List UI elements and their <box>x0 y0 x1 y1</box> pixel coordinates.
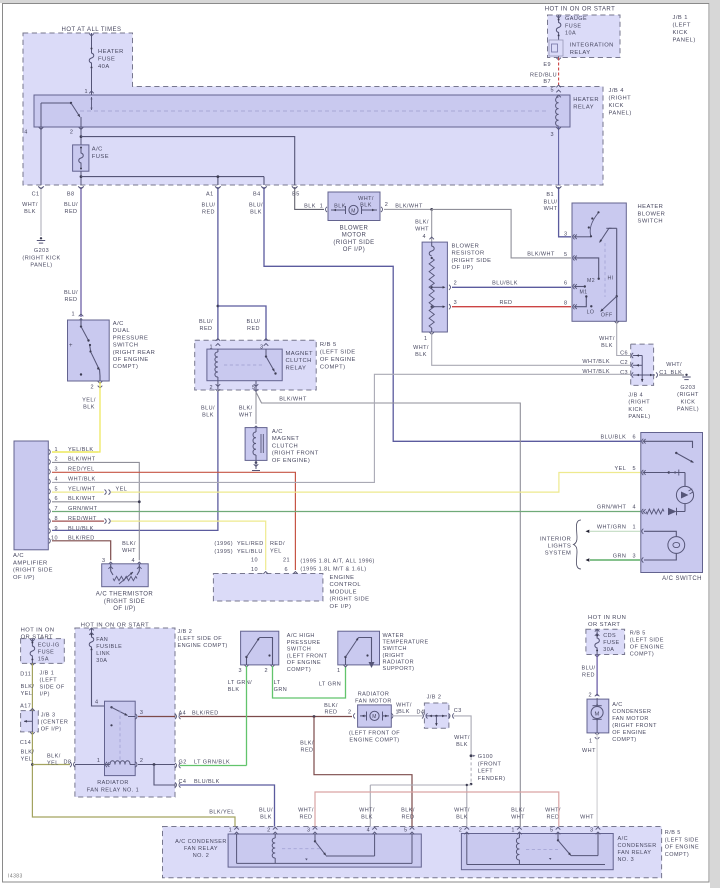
svg-text:OF I/P): OF I/P) <box>13 575 35 581</box>
svg-text:B5: B5 <box>292 192 300 198</box>
svg-text:(1996): (1996) <box>214 541 233 547</box>
pin6 internal <box>575 286 584 288</box>
svg-text:BLK/WHT: BLK/WHT <box>68 457 96 463</box>
svg-text:R/B 5: R/B 5 <box>320 342 337 348</box>
svg-text:WHT/: WHT/ <box>396 703 412 709</box>
svg-text:FAN MOTOR: FAN MOTOR <box>612 716 649 722</box>
svg-text:HOT IN ON: HOT IN ON <box>21 628 55 634</box>
pin8 internal <box>575 298 586 307</box>
svg-text:(FRONT: (FRONT <box>478 761 502 767</box>
svg-text:OF ENGINE: OF ENGINE <box>612 730 646 736</box>
svg-text:2: 2 <box>385 202 389 208</box>
svg-text:RED: RED <box>301 747 314 753</box>
svg-text:FUSE: FUSE <box>38 650 54 656</box>
svg-text:LINK: LINK <box>96 651 110 657</box>
svg-text:OF ENGINE: OF ENGINE <box>113 357 149 363</box>
svg-text:BLK/YEL: BLK/YEL <box>209 810 234 816</box>
svg-text:(RIGHT FRONT: (RIGHT FRONT <box>612 723 657 729</box>
svg-text:WHT/: WHT/ <box>454 735 470 741</box>
gauge fuse 10A <box>558 15 560 19</box>
CDS fuse box <box>586 629 625 654</box>
tap 3 wire RED <box>449 304 451 309</box>
svg-text:C3: C3 <box>620 370 628 376</box>
svg-text:RED: RED <box>582 672 595 678</box>
svg-text:A/C: A/C <box>13 553 24 559</box>
svg-text:3: 3 <box>238 668 242 674</box>
svg-text:2: 2 <box>54 457 58 463</box>
svg-text:MAGNET: MAGNET <box>272 436 300 442</box>
svg-text:OF I/P): OF I/P) <box>452 265 474 271</box>
fan fusible link <box>89 628 94 630</box>
relay1 box <box>105 701 136 775</box>
svg-text:4: 4 <box>422 234 426 240</box>
svg-text:RED: RED <box>300 814 313 820</box>
svg-text:A/C: A/C <box>92 147 103 153</box>
svg-text:WHT/: WHT/ <box>22 202 38 208</box>
svg-text:INTERIOR: INTERIOR <box>540 537 571 543</box>
svg-text:1: 1 <box>589 739 593 745</box>
amplifier wires <box>52 451 98 453</box>
pin9 wire drawn with relay above <box>52 541 111 561</box>
svg-text:A/C: A/C <box>612 702 623 708</box>
svg-text:4: 4 <box>131 558 135 564</box>
svg-text:HEATER: HEATER <box>573 97 599 103</box>
svg-text:GRN/WHT: GRN/WHT <box>597 505 627 511</box>
LT GRN/BLK wire down to G2 <box>246 666 248 766</box>
svg-text:A17: A17 <box>20 703 31 709</box>
wire to blower resistor <box>431 209 433 242</box>
switch internals pin5 + LED <box>644 472 669 474</box>
svg-text:HEATER: HEATER <box>98 49 124 55</box>
wire to heater blower switch pin5 <box>432 209 571 258</box>
bottom arm <box>616 295 618 297</box>
svg-text:E9: E9 <box>543 62 551 68</box>
svg-text:BLK: BLK <box>334 204 346 210</box>
svg-text:(LEFT: (LEFT <box>40 678 58 684</box>
svg-text:BLOWER: BLOWER <box>340 226 369 232</box>
svg-text:BLK/: BLK/ <box>122 541 136 547</box>
A/C condenser fan relay no.3 <box>461 834 613 870</box>
svg-text:SYSTEM: SYSTEM <box>545 551 572 557</box>
svg-text:G203: G203 <box>34 248 49 254</box>
heater relay coil <box>556 97 559 126</box>
svg-text:FUSE: FUSE <box>565 23 581 29</box>
svg-text:SWITCH: SWITCH <box>638 219 664 225</box>
svg-text:OF I/P): OF I/P) <box>343 247 365 253</box>
svg-text:5: 5 <box>54 486 58 492</box>
switch internals pin6 <box>644 441 693 448</box>
svg-text:5: 5 <box>632 466 636 472</box>
svg-text:BLU/: BLU/ <box>64 202 78 208</box>
svg-text:RED: RED <box>247 326 260 332</box>
svg-text:RED: RED <box>500 300 513 306</box>
svg-text:CDS: CDS <box>603 633 616 639</box>
svg-text:BLU/: BLU/ <box>259 808 273 814</box>
svg-text:LT: LT <box>274 680 281 686</box>
svg-text:BLK/: BLK/ <box>401 808 415 814</box>
svg-text:FAN RELAY: FAN RELAY <box>618 850 652 856</box>
svg-text:1: 1 <box>84 89 88 95</box>
branch to C4 <box>154 765 175 786</box>
heater fuse 40A <box>89 48 94 68</box>
right bus <box>616 228 618 321</box>
svg-text:(LEFT FRONT OF: (LEFT FRONT OF <box>349 731 400 737</box>
svg-text:BLK: BLK <box>456 814 468 820</box>
svg-text:(RIGHT KICK: (RIGHT KICK <box>22 255 60 261</box>
svg-text:BLOWER: BLOWER <box>452 244 480 250</box>
svg-text:1: 1 <box>320 204 324 210</box>
svg-text:OFF: OFF <box>601 312 613 318</box>
svg-text:WHT/: WHT/ <box>358 196 374 202</box>
svg-text:J/B 1: J/B 1 <box>673 15 688 21</box>
svg-text:SWITCH: SWITCH <box>287 647 311 653</box>
svg-text:WHT/BLK: WHT/BLK <box>582 359 610 365</box>
svg-text:WHT/: WHT/ <box>359 808 375 814</box>
svg-text:RED/BLU: RED/BLU <box>530 73 557 79</box>
svg-text:(1995 1.8L A/T, ALL 1996): (1995 1.8L A/T, ALL 1996) <box>300 559 374 565</box>
svg-text:YEL: YEL <box>21 691 33 697</box>
svg-text:OF ENGINE: OF ENGINE <box>665 845 699 851</box>
svg-text:BLK/: BLK/ <box>21 750 35 756</box>
wire to relay pin4 <box>92 650 105 706</box>
A/C magnet clutch <box>254 426 259 428</box>
svg-text:C3: C3 <box>454 708 462 714</box>
svg-text:A/C: A/C <box>113 321 124 327</box>
svg-text:RED: RED <box>65 209 78 215</box>
svg-text:OF ENGINE): OF ENGINE) <box>272 458 310 464</box>
pin5 internal <box>575 258 599 278</box>
svg-text:(RIGHT SIDE: (RIGHT SIDE <box>330 597 370 603</box>
svg-text:2: 2 <box>90 385 94 391</box>
svg-text:BLK: BLK <box>24 209 36 215</box>
motor pin1 to J/B2 <box>392 713 394 718</box>
svg-text:PANEL): PANEL) <box>673 38 696 44</box>
svg-text:3: 3 <box>632 554 636 560</box>
svg-text:G203: G203 <box>680 385 695 391</box>
svg-text:BLK/: BLK/ <box>324 703 338 709</box>
svg-text:3: 3 <box>307 828 311 834</box>
svg-text:YEL/BLU: YEL/BLU <box>237 549 263 555</box>
svg-text:(LEFT: (LEFT <box>673 23 691 29</box>
svg-text:BLK/: BLK/ <box>239 406 253 412</box>
svg-text:BLU/BLK: BLU/BLK <box>492 280 518 286</box>
svg-text:BLK/: BLK/ <box>47 754 61 760</box>
svg-text:(RIGHT SIDE: (RIGHT SIDE <box>104 599 145 605</box>
svg-text:COMPT): COMPT) <box>665 852 689 858</box>
svg-text:M: M <box>372 714 377 720</box>
svg-text:1: 1 <box>632 525 636 531</box>
magnet clutch relay <box>216 339 221 341</box>
svg-text:HOT AT ALL TIMES: HOT AT ALL TIMES <box>62 27 122 33</box>
svg-text:10: 10 <box>251 567 258 573</box>
svg-text:4: 4 <box>24 130 28 136</box>
svg-text:YEL/RED: YEL/RED <box>237 541 264 547</box>
pin5 BLK/WHT branch right <box>256 392 520 827</box>
svg-text:(RIGHT: (RIGHT <box>677 392 699 398</box>
J/B3 box <box>21 711 39 732</box>
LT GRN wire to water temp switch <box>273 666 346 698</box>
svg-text:AMPLIFIER: AMPLIFIER <box>13 560 48 566</box>
svg-text:(RIGHT REAR: (RIGHT REAR <box>113 350 156 356</box>
svg-text:GRN: GRN <box>274 687 288 693</box>
svg-text:RELAY: RELAY <box>286 365 307 371</box>
svg-text:A/C THERMISTOR: A/C THERMISTOR <box>96 592 154 598</box>
svg-text:HOT IN ON OR START: HOT IN ON OR START <box>545 7 615 13</box>
svg-text:SUPPORT): SUPPORT) <box>383 666 415 672</box>
svg-text:5: 5 <box>550 88 554 94</box>
svg-text:WHT/: WHT/ <box>413 345 429 351</box>
svg-text:FAN MOTOR: FAN MOTOR <box>355 699 392 705</box>
svg-text:(LEFT SIDE OF: (LEFT SIDE OF <box>178 636 223 642</box>
svg-text:PRESSURE: PRESSURE <box>287 640 321 646</box>
svg-text:5: 5 <box>564 252 568 258</box>
svg-text:8: 8 <box>564 301 568 307</box>
svg-text:10: 10 <box>251 558 258 564</box>
relay switch <box>265 349 267 355</box>
C1 BLK to ground <box>656 372 658 377</box>
J/B4 small box right <box>631 344 654 385</box>
svg-text:BLK: BLK <box>250 209 262 215</box>
pin5 down to magnet clutch <box>255 392 257 424</box>
A/C fuse <box>73 145 89 171</box>
svg-text:G100: G100 <box>478 754 493 760</box>
svg-text:HOT IN RUN: HOT IN RUN <box>588 615 626 621</box>
svg-text:OR START: OR START <box>21 634 53 640</box>
svg-text:BLK/: BLK/ <box>21 684 35 690</box>
svg-text:C2: C2 <box>620 360 628 366</box>
svg-text:ENGINE: ENGINE <box>330 575 355 581</box>
A/C condenser fan relay no.2 <box>228 834 421 867</box>
svg-text:2: 2 <box>209 385 213 391</box>
wire from hot feed <box>91 33 93 48</box>
svg-text:(LEFT SIDE: (LEFT SIDE <box>320 350 356 356</box>
svg-text:TEMPERATURE: TEMPERATURE <box>383 640 429 646</box>
svg-text:1: 1 <box>97 758 101 764</box>
svg-text:5: 5 <box>404 828 408 834</box>
junction block J/B1 (left kick panel) <box>548 15 621 58</box>
svg-text:COMPT): COMPT) <box>113 364 139 370</box>
svg-text:CLUTCH: CLUTCH <box>272 443 298 449</box>
svg-text:LT GRN/: LT GRN/ <box>228 680 252 686</box>
svg-text:BLK: BLK <box>361 814 373 820</box>
svg-text:BLK: BLK <box>202 412 214 418</box>
svg-text:NO. 3: NO. 3 <box>618 857 635 863</box>
svg-text:A/C HIGH: A/C HIGH <box>287 633 315 639</box>
svg-text:(RIGHT SIDE: (RIGHT SIDE <box>333 240 374 246</box>
svg-text:C6: C6 <box>620 351 628 357</box>
svg-text:WHT/: WHT/ <box>599 336 615 342</box>
svg-text:KICK: KICK <box>609 103 624 109</box>
svg-text:WHT: WHT <box>511 814 525 820</box>
svg-text:BLK/RED: BLK/RED <box>192 711 219 717</box>
svg-text:FUSIBLE: FUSIBLE <box>96 644 122 650</box>
svg-text:SWITCH: SWITCH <box>113 343 139 349</box>
svg-text:M1: M1 <box>579 290 587 296</box>
svg-text:B4: B4 <box>253 192 261 198</box>
resistor taps <box>431 286 433 288</box>
G100 <box>470 754 473 757</box>
svg-text:BLU/BLK: BLU/BLK <box>601 435 627 441</box>
svg-text:BLU/: BLU/ <box>581 666 595 672</box>
motor symbol <box>349 205 358 214</box>
svg-text:FAN RELAY NO. 1: FAN RELAY NO. 1 <box>87 787 139 793</box>
svg-text:WHT: WHT <box>580 814 594 820</box>
svg-text:COMPT): COMPT) <box>612 737 636 743</box>
heater relay body (band) <box>34 95 570 127</box>
BLK/RED down to relay2 pin5 <box>314 717 412 827</box>
svg-text:1: 1 <box>229 828 233 834</box>
heater relay contact arm <box>41 102 71 104</box>
svg-text:4: 4 <box>54 476 58 482</box>
svg-text:YEL: YEL <box>615 466 627 472</box>
svg-text:3: 3 <box>590 828 594 834</box>
svg-text:FUSE: FUSE <box>603 640 619 646</box>
svg-text:BLU/: BLU/ <box>201 406 215 412</box>
svg-text:WHT/: WHT/ <box>454 808 470 814</box>
svg-text:4: 4 <box>632 505 636 511</box>
svg-text:C14: C14 <box>20 740 31 746</box>
svg-text:BLK/WHT: BLK/WHT <box>395 204 423 210</box>
svg-text:OF ENGINE: OF ENGINE <box>630 645 664 651</box>
svg-text:RADIATOR: RADIATOR <box>97 780 129 786</box>
svg-text:LO: LO <box>587 310 595 316</box>
svg-text:G2: G2 <box>179 760 187 766</box>
svg-text:BLK: BLK <box>228 687 240 693</box>
svg-text:LIGHTS: LIGHTS <box>548 544 572 550</box>
pin1/3 lamp <box>644 531 676 536</box>
svg-text:B8: B8 <box>67 192 75 198</box>
svg-text:SIDE OF: SIDE OF <box>40 685 65 691</box>
svg-text:30A: 30A <box>96 658 107 664</box>
svg-text:2: 2 <box>588 693 592 699</box>
svg-text:OF ENGINE: OF ENGINE <box>287 660 321 666</box>
WHT/BLK down to G100 <box>454 716 472 754</box>
svg-text:GAUGE: GAUGE <box>565 16 587 22</box>
junction block J/B4 region (top band) <box>23 33 603 185</box>
WHT/BLK to C2 <box>432 332 631 365</box>
svg-text:BLK/WHT: BLK/WHT <box>527 252 555 258</box>
svg-text:LEFT: LEFT <box>478 769 493 775</box>
svg-text:RED/YEL: RED/YEL <box>68 467 95 473</box>
svg-text:30A: 30A <box>603 647 614 653</box>
C3 out <box>449 713 451 718</box>
svg-text:COMPT): COMPT) <box>630 652 654 658</box>
svg-text:INTEGRATION: INTEGRATION <box>570 43 614 49</box>
svg-text:RADIATOR: RADIATOR <box>358 692 390 698</box>
svg-text:PRESSURE: PRESSURE <box>113 335 149 341</box>
BLU/RED wire to motor <box>596 655 598 697</box>
svg-text:KICK: KICK <box>681 399 696 405</box>
svg-text:(LEFT SIDE: (LEFT SIDE <box>665 837 699 843</box>
svg-text:A/C CONDENSER: A/C CONDENSER <box>175 839 227 845</box>
svg-text:BLU/BLK: BLU/BLK <box>194 779 220 785</box>
svg-text:21: 21 <box>283 558 290 564</box>
svg-text:BLK: BLK <box>304 204 316 210</box>
svg-text:M2: M2 <box>587 278 595 284</box>
svg-text:BLK/: BLK/ <box>511 808 525 814</box>
svg-text:LT GRN: LT GRN <box>319 682 341 688</box>
relay block R/B5 magnet clutch relay box <box>195 340 317 390</box>
svg-text:15A: 15A <box>38 657 49 663</box>
svg-text:BLK/: BLK/ <box>415 220 429 226</box>
svg-text:RED: RED <box>65 297 78 303</box>
svg-text:J/B 1: J/B 1 <box>40 671 55 677</box>
svg-text:YEL/: YEL/ <box>82 398 96 404</box>
connector arcs under band <box>38 186 44 188</box>
A/C high pressure switch <box>241 631 279 665</box>
A/C switch <box>641 433 703 573</box>
svg-text:COMPT): COMPT) <box>287 667 311 673</box>
svg-text:J/B 2: J/B 2 <box>178 629 193 635</box>
svg-text:9: 9 <box>54 526 58 532</box>
svg-text:2: 2 <box>70 130 74 136</box>
svg-text:(1995 1.8L M/T & 1.6L): (1995 1.8L M/T & 1.6L) <box>300 566 366 572</box>
svg-text:2: 2 <box>264 668 268 674</box>
svg-text:J/B 4: J/B 4 <box>609 88 625 94</box>
svg-text:PANEL): PANEL) <box>609 111 632 117</box>
ground G203 left <box>40 237 42 239</box>
G2 wire LT GRN/BLK <box>175 763 177 768</box>
svg-text:FENDER): FENDER) <box>478 776 506 782</box>
svg-text:HI: HI <box>607 276 613 282</box>
svg-text:CONDENSER: CONDENSER <box>618 843 657 849</box>
svg-text:OF I/P): OF I/P) <box>330 604 352 610</box>
WHT wire down <box>596 733 598 827</box>
svg-text:NO. 2: NO. 2 <box>193 853 210 859</box>
integration relay <box>549 40 563 56</box>
svg-text:B1: B1 <box>546 192 554 198</box>
svg-text:BLU/BLK: BLU/BLK <box>68 526 94 532</box>
interior lights wires <box>590 530 640 532</box>
svg-text:WHT: WHT <box>122 548 136 554</box>
svg-text:A1: A1 <box>206 192 214 198</box>
svg-text:RESISTOR: RESISTOR <box>452 251 485 257</box>
branch to B5 <box>81 137 295 185</box>
svg-text:OR START: OR START <box>588 622 620 628</box>
pin2 wire to junction <box>381 207 383 212</box>
svg-text:PANEL): PANEL) <box>30 263 52 269</box>
pin4 resistor + diode <box>646 509 664 514</box>
svg-text:RED: RED <box>402 814 415 820</box>
J/B3 internals <box>31 711 33 732</box>
svg-text:HOT IN ON OR START: HOT IN ON OR START <box>81 622 149 628</box>
switch output WHT/BLK <box>614 321 619 323</box>
svg-text:BLK/WHT: BLK/WHT <box>279 397 307 403</box>
tap 2 wire BLU/BLK <box>449 285 451 290</box>
svg-text:RED: RED <box>325 709 338 715</box>
svg-text:KICK: KICK <box>673 30 688 36</box>
svg-text:BLK/: BLK/ <box>300 741 314 747</box>
svg-text:YEL: YEL <box>47 760 59 766</box>
svg-text:HEATER: HEATER <box>638 204 664 210</box>
svg-text:6: 6 <box>632 435 636 441</box>
wire B4 to A/C switch pin6 <box>264 187 641 441</box>
svg-text:BLU/: BLU/ <box>249 203 263 209</box>
svg-text:(RIGHT: (RIGHT <box>628 400 650 406</box>
svg-text:BLU/: BLU/ <box>199 319 213 325</box>
svg-text:RED/: RED/ <box>270 541 285 547</box>
wire C1 to ground <box>40 187 42 236</box>
svg-text:6: 6 <box>564 281 568 287</box>
svg-text:A/C SWITCH: A/C SWITCH <box>662 576 702 582</box>
branch to pin3 <box>218 306 266 340</box>
svg-text:YEL/WHT: YEL/WHT <box>68 486 96 492</box>
R/B5 bottom relay block <box>163 827 662 878</box>
svg-text:BLK: BLK <box>415 352 427 358</box>
svg-text:4: 4 <box>95 700 99 706</box>
A/C condenser fan motor <box>587 699 609 733</box>
svg-text:3: 3 <box>102 558 106 564</box>
